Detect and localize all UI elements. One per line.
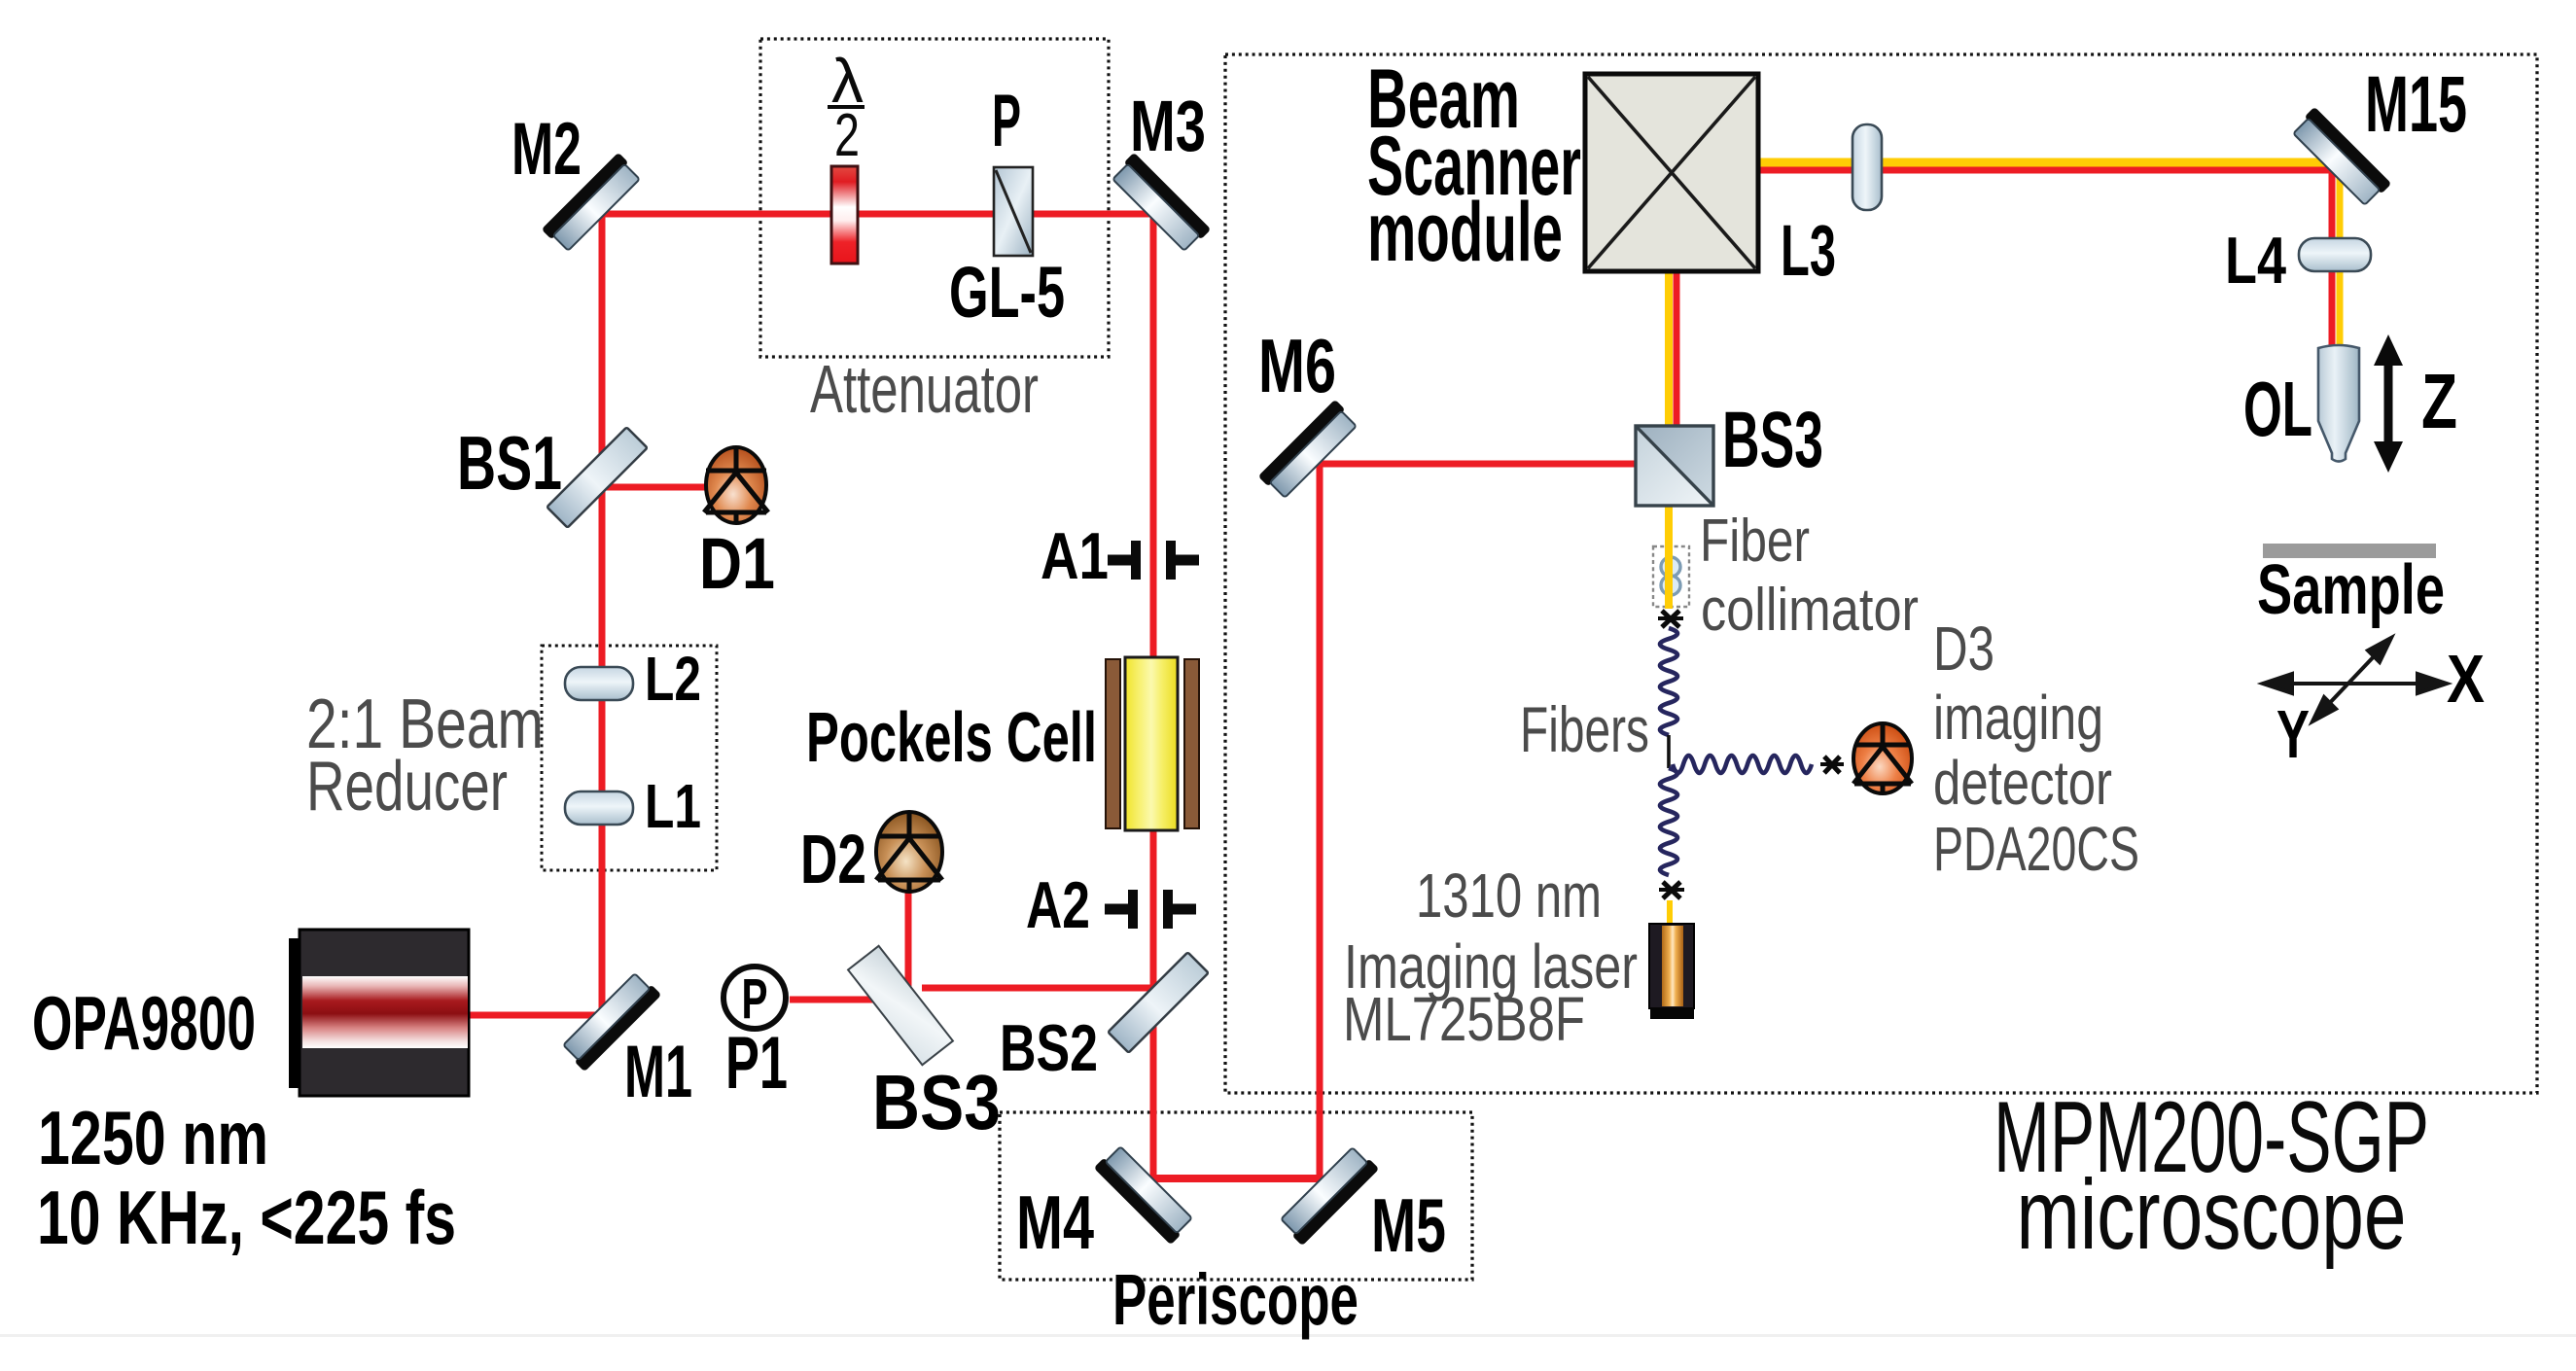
label OL: [2243, 366, 2312, 452]
svg-text:M1: M1: [624, 1031, 692, 1113]
aperture A2: [1105, 890, 1196, 929]
mirror M15: [2290, 107, 2391, 208]
beamsplitter cube BS3: [1636, 426, 1713, 506]
label BS1: [457, 420, 562, 506]
label Pockels Cell: [806, 699, 1097, 777]
label BS2: [1000, 1011, 1098, 1085]
label M4: [1016, 1179, 1094, 1265]
svg-text:GL-5: GL-5: [949, 252, 1065, 333]
wire M4 to M5: [1149, 1175, 1320, 1182]
Y axis arrow (diagonal): [2312, 638, 2391, 721]
svg-text:P: P: [992, 80, 1021, 162]
svg-text:M6: M6: [1258, 323, 1336, 408]
mirror M3: [1110, 153, 1211, 254]
polarization node P1 (circled P): [723, 967, 786, 1031]
label X: [2447, 641, 2485, 717]
svg-text:microscope: microscope: [2017, 1159, 2407, 1270]
svg-text:module: module: [1367, 186, 1563, 279]
label A2: [1026, 868, 1090, 942]
svg-text:L1: L1: [645, 771, 701, 841]
mirror M6: [1258, 400, 1359, 501]
svg-text:P1: P1: [725, 1022, 788, 1105]
svg-text:Periscope: Periscope: [1112, 1259, 1359, 1340]
svg-text:M2: M2: [512, 108, 582, 191]
label L4: [2225, 224, 2286, 298]
label L3: [1781, 210, 1836, 291]
fiber from collimator down (wavy): [1660, 628, 1677, 735]
svg-text:BS1: BS1: [457, 420, 562, 506]
detector D2: [876, 812, 942, 892]
wire scanner to M15 (red): [1758, 167, 2338, 174]
label BS3 (cube): [1722, 396, 1823, 484]
svg-text:PDA20CS: PDA20CS: [1933, 814, 2139, 884]
Z axis arrow: [2374, 334, 2403, 473]
laser OPA9800: [289, 930, 469, 1096]
aperture A1: [1108, 541, 1199, 580]
label M6: [1258, 323, 1336, 408]
label OPA9800: [32, 980, 256, 1066]
label 2:1 Beam Reducer: [306, 685, 544, 826]
svg-text:Fiber: Fiber: [1700, 508, 1810, 575]
svg-text:A1: A1: [1041, 519, 1109, 593]
svg-text:X: X: [2447, 641, 2485, 717]
X axis arrow: [2263, 674, 2447, 693]
box Periscope: [1000, 1112, 1472, 1280]
Pockels cell: [1106, 657, 1199, 830]
svg-text:Sample: Sample: [2257, 551, 2445, 629]
label D1: [699, 523, 775, 604]
label Beam Scanner module: [1367, 53, 1581, 279]
imaging laser ML725B8F body: [1649, 924, 1694, 1019]
svg-text:2: 2: [834, 102, 860, 169]
label P1: [725, 1022, 788, 1105]
wire BS3 plate to D2: [905, 877, 912, 996]
svg-text:BS2: BS2: [1000, 1011, 1098, 1085]
fiber down to imaging laser (wavy): [1660, 768, 1677, 875]
svg-text:M3: M3: [1130, 86, 1206, 166]
beamsplitter BS2: [1108, 952, 1208, 1052]
svg-text:10 KHz, <225 fs: 10 KHz, <225 fs: [37, 1175, 456, 1260]
mirror M2: [542, 153, 643, 254]
svg-text:L3: L3: [1781, 210, 1836, 291]
mirror M1: [560, 970, 661, 1072]
wire BS3 cube up to scanner (yellow): [1665, 268, 1673, 431]
label P (polarizer): [992, 80, 1021, 162]
label 1310 nm Imaging laser ML725B8F: [1343, 861, 1638, 1054]
polarizer GL-5: [994, 167, 1033, 256]
svg-text:M5: M5: [1371, 1182, 1446, 1268]
fiber connector at imaging laser: [1659, 882, 1684, 898]
label Z: [2421, 358, 2457, 444]
wire P1 to BS3 plate: [790, 997, 914, 1003]
svg-text:detector: detector: [1933, 748, 2112, 818]
wire M6 to BS3 cube: [1317, 461, 1641, 468]
label M1: [624, 1031, 692, 1113]
svg-text:L2: L2: [645, 644, 701, 714]
svg-text:D3: D3: [1933, 614, 1994, 684]
svg-text:ML725B8F: ML725B8F: [1343, 984, 1585, 1054]
faint page rule: [0, 1334, 2576, 1337]
wire M5 up to M6: [1317, 462, 1323, 1182]
waveplate lambda/2: [831, 166, 858, 264]
fiber connector at D3: [1820, 756, 1844, 773]
label BS3 (plate): [872, 1059, 1001, 1145]
lens L3: [1853, 124, 1882, 210]
svg-text:M4: M4: [1016, 1179, 1094, 1265]
svg-text:Pockels Cell: Pockels Cell: [806, 699, 1097, 777]
detector D1: [704, 447, 768, 523]
svg-text:1250 nm: 1250 nm: [38, 1095, 268, 1180]
label 10 KHz <225 fs: [37, 1175, 456, 1260]
lens L2: [565, 667, 633, 700]
label M5: [1371, 1182, 1446, 1268]
wire BS3 cube down to collimator (yellow): [1665, 442, 1673, 609]
svg-text:collimator: collimator: [1701, 577, 1919, 644]
label D2: [800, 822, 866, 898]
lens L4: [2299, 238, 2371, 271]
label MPM200-SGP microscope: [1994, 1081, 2429, 1270]
label Y: [2276, 696, 2310, 772]
wire laser to M1 to M2 to M3 to BS2 (red beam): [468, 214, 1153, 1015]
label lambda/2: [828, 46, 865, 169]
label L2: [645, 644, 701, 714]
svg-text:BS3: BS3: [1722, 396, 1823, 484]
svg-text:Y: Y: [2276, 696, 2310, 772]
box MPM200-SGP microscope: [1225, 54, 2537, 1093]
mirror M5: [1278, 1144, 1379, 1246]
svg-text:Reducer: Reducer: [306, 748, 508, 826]
svg-text:Z: Z: [2421, 358, 2457, 444]
wire imaging laser pigtail (yellow): [1667, 900, 1673, 928]
sample slide: [2263, 544, 2436, 558]
objective OL: [2318, 345, 2359, 462]
svg-text:BS3: BS3: [872, 1059, 1001, 1145]
svg-text:A2: A2: [1026, 868, 1090, 942]
wire BS2 down to M4: [1150, 1002, 1157, 1178]
wire M15 down to OL (red): [2329, 171, 2336, 350]
beamsplitter BS1: [547, 427, 647, 527]
svg-text:D2: D2: [800, 822, 866, 898]
fiber junction: [1667, 735, 1671, 768]
mirror M4: [1094, 1143, 1195, 1245]
label Attenuator: [810, 351, 1039, 427]
beamsplitter BS3 plate: [848, 946, 953, 1065]
svg-text:Attenuator: Attenuator: [810, 351, 1039, 427]
svg-text:1310 nm: 1310 nm: [1416, 861, 1602, 931]
svg-text:D1: D1: [699, 523, 775, 604]
fiber collimator: [1653, 546, 1689, 607]
fiber connector at collimator: [1658, 611, 1683, 627]
lens L1: [565, 791, 633, 825]
label M3: [1130, 86, 1206, 166]
label GL-5: [949, 252, 1065, 333]
wire BS1 to D1: [597, 484, 731, 491]
wire scanner to M15 (yellow): [1758, 158, 2346, 167]
label Fibers: [1520, 693, 1649, 765]
box Attenuator: [760, 39, 1109, 357]
wire M15 down to OL (yellow): [2337, 163, 2344, 350]
label Sample: [2257, 551, 2445, 629]
svg-text:L4: L4: [2225, 224, 2286, 298]
wire BS3 cube up to scanner (red): [1674, 268, 1680, 431]
svg-text:M15: M15: [2365, 60, 2467, 149]
svg-text:Fibers: Fibers: [1520, 693, 1649, 765]
label L1: [645, 771, 701, 841]
label Periscope: [1112, 1259, 1359, 1340]
label Fiber collimator: [1700, 508, 1919, 644]
fiber to D3 (wavy horizontal): [1673, 756, 1812, 773]
beam scanner module box: [1585, 74, 1758, 271]
wire BS3 plate to BS2: [922, 985, 1153, 992]
box 2:1 Beam Reducer: [542, 646, 717, 870]
svg-text:imaging: imaging: [1933, 683, 2103, 753]
label A1: [1041, 519, 1109, 593]
label D3 imaging detector PDA20CS: [1933, 614, 2139, 884]
svg-text:OPA9800: OPA9800: [32, 980, 256, 1066]
label 1250 nm: [38, 1095, 268, 1180]
svg-text:OL: OL: [2243, 366, 2312, 452]
label M2: [512, 108, 582, 191]
detector D3: [1853, 723, 1912, 793]
label M15: [2365, 60, 2467, 149]
